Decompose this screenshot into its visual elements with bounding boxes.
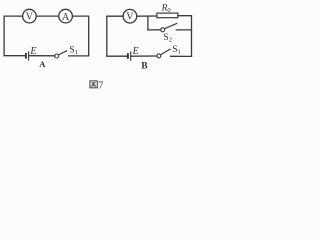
svg-text:E: E (132, 46, 139, 57)
switch S2 (161, 23, 178, 32)
voltmeter V1 left (23, 9, 37, 23)
svg-text:V: V (26, 12, 34, 23)
switch S1 right (157, 49, 171, 58)
wire V to R0 box (137, 15, 157, 17)
wire between V and A (36, 15, 59, 17)
wire battery to switch S1 (29, 55, 55, 57)
switch S1 left (55, 51, 67, 58)
wire R0 box to top-right corner and down right side (178, 16, 192, 57)
wire right circuit top-left and left side (107, 16, 127, 56)
svg-text:V: V (126, 12, 134, 23)
wire junction vertical left of parallel section (147, 16, 149, 30)
wire S2 branch right segment (176, 29, 191, 31)
svg-text:B: B (141, 62, 148, 72)
ammeter A1 left (59, 9, 73, 23)
svg-text:A: A (39, 59, 46, 69)
wire switch S1 to bottom-right corner (69, 55, 89, 57)
wire S2 branch left segment (148, 29, 161, 31)
battery E right (128, 51, 131, 61)
wire left circuit outer loop (4, 16, 25, 56)
wire battery to switch S1 right (131, 55, 157, 57)
resistor R0 box (157, 13, 178, 18)
svg-text:7: 7 (98, 80, 103, 91)
battery E left (26, 51, 29, 60)
svg-text:E: E (29, 46, 36, 57)
wire switch S1 to bottom-right corner (171, 55, 192, 57)
svg-text:A: A (62, 12, 70, 23)
voltmeter V2 right (123, 9, 137, 23)
caption 图7 : hand-drawn 图 glyph (90, 81, 97, 88)
wire A to top-right corner and down (73, 16, 89, 56)
